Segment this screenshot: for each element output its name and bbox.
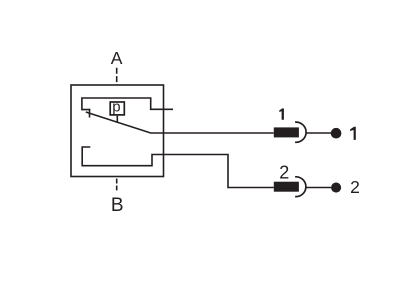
svg-text:B: B bbox=[111, 195, 124, 216]
svg-text:A: A bbox=[111, 48, 123, 68]
svg-text:2: 2 bbox=[279, 162, 289, 182]
svg-text:p: p bbox=[112, 99, 120, 116]
svg-text:2: 2 bbox=[350, 177, 360, 197]
